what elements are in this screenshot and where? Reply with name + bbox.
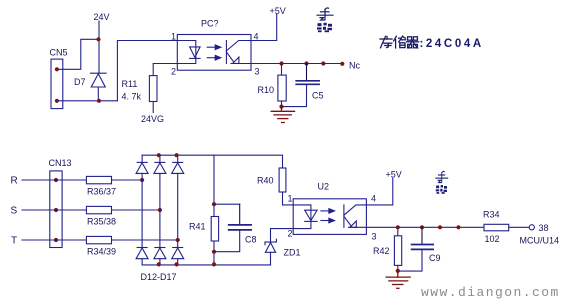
resistor R11 — [149, 76, 157, 113]
label PC? — [201, 19, 219, 29]
label R40 — [257, 176, 274, 186]
ground G1 — [271, 107, 294, 123]
svg-text:1: 1 — [288, 194, 293, 204]
diode D12 top — [136, 155, 148, 180]
label R11 — [122, 79, 138, 89]
label title CJK 储 — [394, 36, 406, 48]
connector CN13 — [50, 171, 62, 248]
svg-text:R34/39: R34/39 — [87, 247, 116, 257]
node R41 top — [212, 202, 216, 206]
node R41 rail — [212, 262, 216, 266]
pin 2 PC — [171, 67, 176, 77]
node mid — [321, 61, 325, 65]
svg-text:2: 2 — [171, 67, 176, 77]
svg-text:4: 4 — [371, 194, 376, 204]
pin 38 — [539, 223, 549, 233]
watermark glyphs bottom — [436, 171, 448, 193]
label 24VG — [141, 114, 164, 124]
connector CN5 — [51, 59, 63, 109]
label C8 — [245, 235, 257, 245]
wire to PC pin1 — [117, 41, 177, 101]
U2 LED — [293, 205, 317, 229]
wire U2 pin2 to ZD1 — [271, 229, 294, 242]
node C5 top — [304, 61, 308, 65]
svg-text:D7: D7 — [74, 77, 86, 87]
node bottom rail D16 — [157, 262, 161, 266]
label C5 — [312, 91, 324, 101]
label 4.7k — [122, 92, 142, 102]
svg-text:CN13: CN13 — [49, 158, 72, 168]
diode D13 top — [154, 155, 166, 210]
label D7 — [74, 77, 86, 87]
wire 24VG bottom rail — [57, 100, 117, 102]
node R10 top — [279, 61, 283, 65]
node R41 bottom — [212, 250, 216, 254]
pin 3 PC — [255, 67, 260, 77]
resistor R42 — [394, 227, 401, 270]
op-amp U2 optocoupler box — [293, 199, 366, 235]
label R36/37 — [87, 187, 116, 197]
op-amp PC? optocoupler box — [177, 35, 251, 71]
label 24V — [94, 12, 110, 22]
svg-text:C9: C9 — [429, 253, 441, 263]
svg-text:R40: R40 — [257, 176, 274, 186]
label R35/38 — [87, 217, 116, 227]
pin CN5-1 — [55, 67, 59, 71]
svg-text:R11: R11 — [122, 79, 138, 89]
label title CJK 存 — [380, 36, 392, 48]
wire R41 branch — [213, 155, 215, 265]
resistor R41 — [211, 217, 218, 242]
wire U2 pin3 output — [366, 226, 529, 228]
U2 phototransistor — [344, 205, 367, 227]
svg-text:PC?: PC? — [201, 19, 219, 29]
label R34/39 — [87, 247, 116, 257]
node R10 bottom — [279, 105, 283, 109]
node rail D14 — [175, 153, 179, 157]
node row T bridge — [176, 238, 180, 242]
label R10 — [258, 85, 275, 95]
resistor R34 — [484, 224, 509, 231]
node C9 top — [420, 225, 424, 229]
label Nc — [349, 61, 360, 71]
label CN5 — [50, 48, 68, 58]
label S phase — [11, 206, 18, 217]
svg-text:CN5: CN5 — [50, 48, 68, 58]
svg-text:R: R — [11, 176, 18, 187]
svg-text:R42: R42 — [373, 246, 390, 256]
label C9 — [429, 253, 441, 263]
svg-text:S: S — [11, 206, 18, 217]
PC arrows — [207, 45, 221, 60]
svg-text:24V: 24V — [94, 12, 110, 22]
label MCU/U14 — [520, 236, 560, 246]
svg-text:102: 102 — [485, 234, 500, 244]
resistor R10 — [278, 64, 286, 107]
svg-text:MCU/U14: MCU/U14 — [520, 236, 560, 246]
svg-text:38: 38 — [539, 223, 549, 233]
svg-text:3: 3 — [372, 232, 377, 242]
pin 4 U2 — [371, 194, 376, 204]
pin CN5-2 — [55, 99, 59, 103]
wire top rail — [142, 155, 282, 168]
node 24V junction — [96, 37, 100, 41]
diode D17 bottom — [172, 240, 184, 265]
svg-text:C5: C5 — [312, 91, 324, 101]
capacitor C9 — [398, 227, 433, 271]
label U2 — [318, 182, 330, 192]
node R42 bottom — [396, 269, 400, 273]
diode D16 bottom — [154, 210, 166, 265]
svg-text:2: 2 — [288, 229, 293, 239]
resistor R34/39 — [86, 236, 111, 243]
svg-text:24VG: 24VG — [141, 114, 164, 124]
label R41 — [189, 222, 206, 232]
node row S bridge — [158, 208, 162, 212]
wire PC pin2 to R11 — [153, 64, 177, 76]
watermark glyphs top — [317, 8, 333, 32]
wire CN5 pin1 to 24V node — [57, 39, 99, 69]
label R34 — [483, 210, 500, 220]
svg-text:1: 1 — [171, 32, 176, 42]
svg-text:R10: R10 — [258, 85, 275, 95]
svg-text:R34: R34 — [483, 210, 500, 220]
resistor R36/37 — [86, 176, 111, 183]
svg-text:R41: R41 — [189, 222, 206, 232]
pin CN13-3 — [54, 238, 58, 242]
PC phototransistor — [226, 41, 251, 64]
pin 4 PC — [254, 32, 259, 42]
label ZD1 — [284, 248, 301, 258]
pin CN13-1 — [54, 178, 58, 182]
label +5V top — [270, 6, 286, 16]
wire row S — [22, 209, 160, 211]
svg-text:3: 3 — [255, 67, 260, 77]
label T phase — [11, 236, 17, 247]
svg-text:R35/38: R35/38 — [87, 217, 116, 227]
label D12-D17 — [141, 272, 177, 282]
wire row T — [22, 239, 178, 241]
pin 1 U2 — [288, 194, 293, 204]
pin 1 PC — [171, 32, 176, 42]
node Nc end — [340, 62, 344, 66]
resistor R35/38 — [86, 206, 111, 213]
node D7 anode junction — [97, 99, 101, 103]
capacitor C8 — [214, 204, 251, 252]
node bottom rail D17 — [175, 262, 179, 266]
svg-text:ZD1: ZD1 — [284, 248, 301, 258]
pin CN13-2 — [54, 208, 58, 212]
label +5V bottom — [386, 170, 402, 180]
svg-text:D12-D17: D12-D17 — [141, 272, 177, 282]
capacitor C5 — [282, 64, 320, 107]
wire PC pin4 to +5V — [251, 15, 277, 41]
label R phase — [11, 176, 18, 187]
diode D7 — [90, 73, 106, 101]
wire U2 pin4 to +5V — [366, 178, 392, 205]
resistor R40 — [279, 168, 293, 205]
node R42 top — [396, 225, 400, 229]
svg-text:www.diangon.com: www.diangon.com — [421, 285, 560, 300]
label CN13 — [49, 158, 72, 168]
label title CJK 器 — [407, 37, 419, 48]
label title :24C04A — [420, 38, 484, 50]
svg-text:+5V: +5V — [386, 170, 402, 180]
node output terminal — [529, 225, 534, 230]
label R42 — [373, 246, 390, 256]
node row R bridge — [140, 178, 144, 182]
svg-text:Nc: Nc — [349, 61, 360, 71]
svg-text:4. 7k: 4. 7k — [122, 92, 142, 102]
node out2 — [456, 225, 460, 229]
zener ZD1 — [265, 239, 276, 265]
node out1 — [438, 225, 442, 229]
svg-text:C8: C8 — [245, 235, 257, 245]
wire row R — [22, 179, 142, 181]
svg-text:U2: U2 — [318, 182, 330, 192]
label 102 — [485, 234, 500, 244]
watermark www.diangon.com — [421, 285, 560, 300]
svg-text:T: T — [11, 236, 17, 247]
ground G2 — [386, 271, 410, 288]
wire bottom rail — [142, 264, 270, 266]
U2 arrows — [321, 209, 335, 223]
pin 3 U2 — [372, 232, 377, 242]
PC LED — [177, 41, 200, 64]
pin 2 U2 — [288, 229, 293, 239]
svg-text:+5V: +5V — [270, 6, 286, 16]
diode D15 bottom — [136, 180, 148, 265]
wire PC pin3 to Nc — [251, 63, 342, 65]
wire 24V vertical — [98, 21, 100, 73]
svg-text:R36/37: R36/37 — [87, 187, 116, 197]
svg-text::24C04A: :24C04A — [420, 38, 484, 50]
node rail D13 — [157, 153, 161, 157]
diode D14 top — [172, 155, 184, 240]
